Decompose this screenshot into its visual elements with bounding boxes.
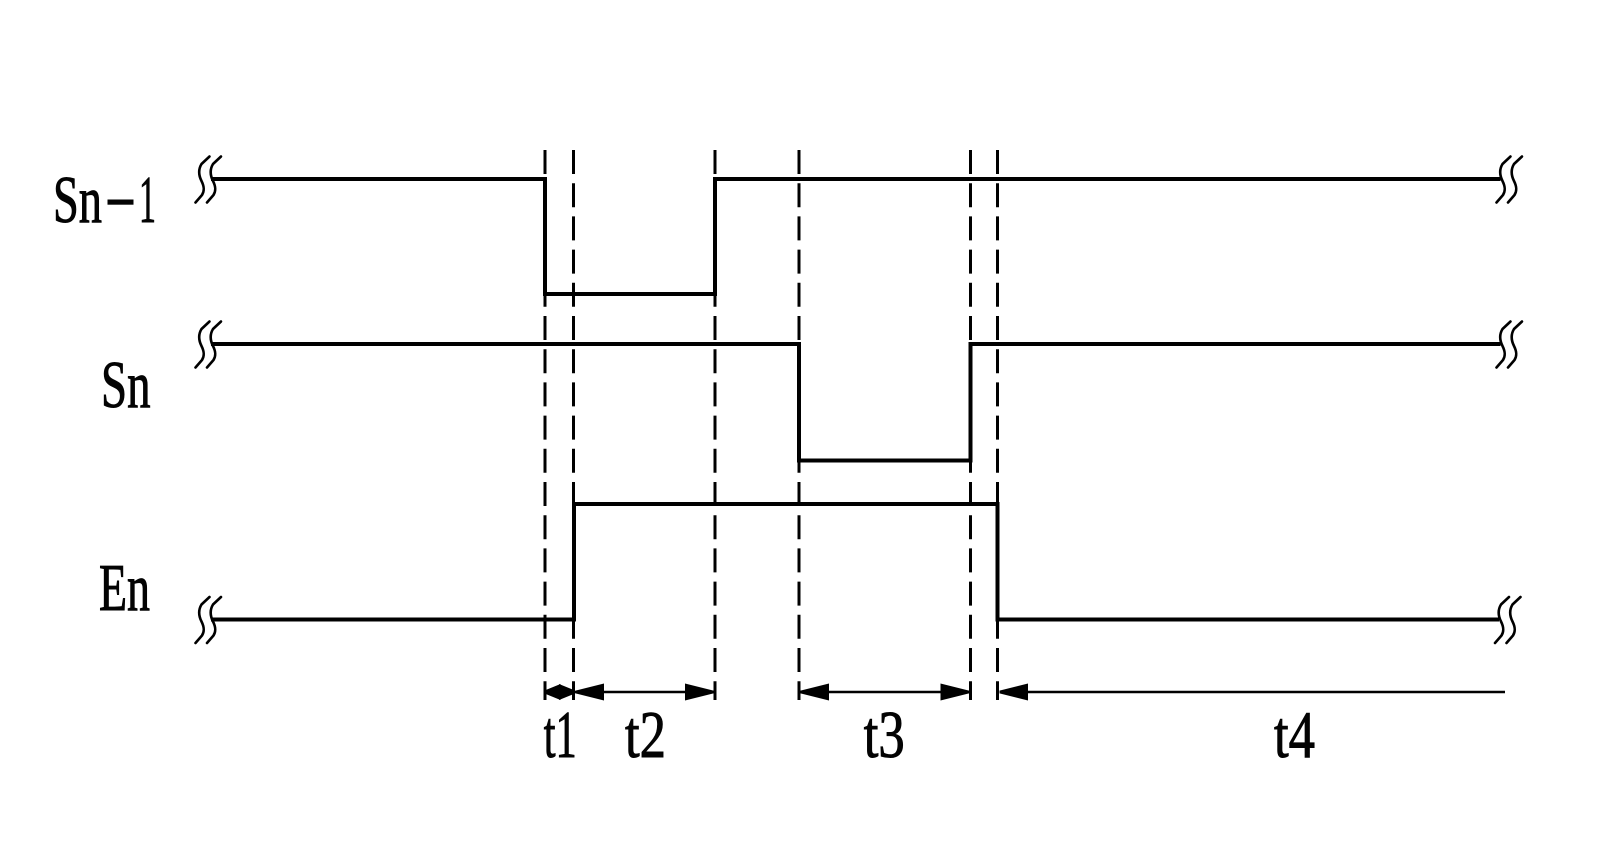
dimension line t2 — [574, 691, 716, 694]
svg-text:En: En — [99, 552, 150, 625]
svg-text:Sn: Sn — [53, 164, 102, 237]
dimension line t4 — [1000, 691, 1506, 694]
break squiggle Sn right — [1497, 322, 1523, 368]
svg-text:t3: t3 — [864, 699, 905, 772]
dashed line 4 (Sn fall, x=799) — [798, 150, 801, 700]
dashed line 3 (Sn-1 rise, x=715) — [714, 150, 717, 700]
label Sn-1 — [53, 164, 156, 237]
arrowhead t1 left — [545, 684, 561, 700]
signal En waveform — [211, 504, 1499, 620]
dashed line 2 (En rise, x=573.5) — [572, 150, 575, 700]
dimension line t3 — [799, 691, 971, 694]
break squiggle Sn-1 right — [1497, 157, 1523, 203]
arrowhead t1 right — [559, 684, 575, 700]
break squiggle Sn left — [196, 322, 222, 368]
arrowhead t2 left — [576, 684, 605, 701]
break squiggle En left — [196, 597, 222, 643]
dimension line t1 — [545, 691, 574, 694]
dashed line 6 (En fall, x=997.5) — [996, 150, 999, 700]
break squiggle Sn-1 left — [196, 157, 222, 203]
arrowhead t4 left — [1000, 684, 1029, 701]
signal Sn-1 waveform — [211, 179, 1501, 294]
dashed line 1 (Sn-1 fall, x=545) — [544, 150, 547, 700]
svg-text:1: 1 — [139, 164, 156, 237]
svg-text:Sn: Sn — [101, 349, 151, 422]
arrowhead t3 right — [941, 684, 970, 701]
svg-text:t1: t1 — [544, 699, 577, 772]
svg-text:t2: t2 — [625, 699, 666, 772]
signal Sn waveform — [211, 344, 1501, 461]
svg-text:t4: t4 — [1274, 699, 1315, 772]
dashed line 5 (Sn rise, x=970.5) — [969, 150, 972, 700]
arrowhead t3 left — [801, 684, 830, 701]
break squiggle En right — [1495, 597, 1521, 643]
arrowhead t2 right — [685, 684, 714, 701]
